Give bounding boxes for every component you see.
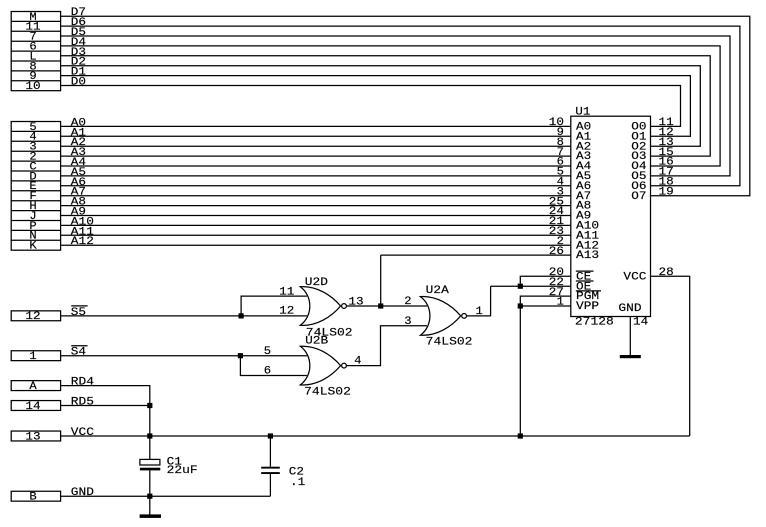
wire A5 (P2 to U1) [61,175,571,177]
wire A10 (P2 to U1) [61,224,571,226]
U1 pin name A0 [576,122,591,134]
U1 pin 14 number [633,317,649,329]
U1 pin name PGM [576,291,601,303]
svg-text:GND: GND [618,303,642,315]
wire C1 to GND rail [149,470,151,496]
wire VCC (U1 pin 28 to VCC rail) [651,276,690,436]
U1 pin 21 number [549,216,565,228]
wire D3 (P1 to U1 O3) [61,56,711,156]
svg-text:.1: .1 [290,477,306,489]
net label A5 [71,167,86,179]
junction S4 branch [238,353,243,358]
net label A3 [71,147,86,159]
svg-text:A13: A13 [576,250,599,262]
wire RD4 [61,386,150,460]
U1 pin 10 number [549,117,564,129]
U2B refdes label [305,335,329,347]
wire U2B pin 6 branch [240,356,307,376]
wire D2 (P1 to U1 O2) [61,66,701,147]
connector P1 pin label 7 [29,32,36,44]
net label D4 [71,37,87,49]
svg-text:O7: O7 [631,191,646,203]
wire U2B output to U2A pin 3 [347,326,427,366]
net label A1 [71,127,87,139]
wire D0 (P1 to U1 O0) [61,86,681,127]
U1 pin name A1 [576,131,592,143]
U2D pin 12 number [279,306,294,318]
connector P1 pin label 9 [29,71,36,83]
U2D pin 11 number [279,286,295,298]
U1 pin name O7 [631,191,646,203]
U2D pin 13 number [348,297,363,309]
wire S4 (P2-1 to U2B pin 5) [61,355,307,357]
svg-text:GND: GND [71,487,95,499]
wire CE (U1 pin 20 to OE node) [520,276,571,286]
net label A8 [71,197,86,209]
U1 pin name CE [576,271,594,283]
wire GND rail [61,495,271,497]
U1 pin 6 number [557,157,564,169]
U1 pin 16 number [659,157,674,169]
connector P2 pin label C [29,161,37,173]
U1 pin 13 number [659,137,674,149]
wire A11 (P2 to U1) [61,234,571,236]
U1 pin name VPP [576,301,600,313]
U1 pin 5 number [557,167,564,179]
svg-text:A: A [29,381,37,393]
wire A13 riser [380,255,382,306]
U1 pin name A12 [576,240,599,252]
wire A8 (P2 to U1) [61,205,571,207]
connector P2 pin label P [29,221,37,233]
U1 pin name O3 [631,151,646,163]
wire A6 (P2 to U1) [61,185,571,187]
junction RD4 riser/VCC rail [147,433,152,438]
wire S5 (P1-12 to U2D pin 12) [61,315,307,317]
svg-text:27128: 27128 [575,317,614,329]
U2B pin 6 number [264,366,271,378]
net label A4 [71,157,87,169]
U1 pin name O4 [631,161,647,173]
wire A3 (P2 to U1) [61,155,571,157]
wire OE (U2A output to U1 pin 22) [491,285,571,287]
junction at VPP/VCC rail [518,433,523,438]
U1 refdes label [575,107,591,119]
NOR gate U2D (74LS02) [300,287,346,326]
U2A pin 1 number [476,306,484,318]
U2A value label 74LS02 [426,337,473,349]
U1 pin name A13 [576,250,599,262]
connector P1 pin label M [29,12,36,24]
connector P1 pin label L [29,51,36,63]
connector P1 (data bus pins) [11,12,60,91]
U2D value label 74LS02 [306,327,353,339]
connector pin 1 box [11,351,60,361]
capacitor C1 bottom plate [140,468,160,471]
wire A1 (P2 to U1) [61,135,571,137]
U1 pin name A4 [576,161,592,173]
svg-text:14: 14 [25,401,41,413]
net label D5 [71,27,86,39]
wire D1 (P1 to U1 O1) [61,76,691,137]
U1 pin 12 number [659,127,674,139]
ground symbol at U1 pin 14 [620,355,641,358]
U1 pin 25 number [549,196,564,208]
connector P2 pin label 2 [29,152,36,164]
svg-text:28: 28 [659,267,674,279]
U1 pin 3 number [557,186,564,198]
svg-text:S5: S5 [71,307,86,319]
U1 pin 26 number [549,246,564,258]
connector P1 pin label 10 [25,81,40,93]
U1 pin 11 number [659,117,675,129]
junction C2/VCC rail [268,433,273,438]
svg-text:D0: D0 [71,77,86,89]
wire A9 (P2 to U1) [61,215,571,217]
svg-text:U2D: U2D [305,277,329,289]
net label D6 [71,17,86,29]
U1 pin 19 number [659,186,674,198]
net label VCC [71,427,95,439]
connector pin 12 label [25,311,40,323]
wire VPP (U1 pin 1 to VCC rail) [520,306,571,436]
capacitor C2 top plate [261,467,280,469]
connector P2 (address bus pins) [11,122,60,251]
wire D7 (P1 to U1 O7) [61,16,750,196]
U2D refdes label [305,277,329,289]
U1 value label 27128 [575,317,614,329]
U1 pin 9 number [557,127,564,139]
connector pin 12 box [11,311,60,321]
connector P2 pin label N [29,231,36,243]
wire A13 (U2D output to U1 pin 26) [381,254,571,256]
wire U2D output node [347,305,381,307]
U2B value label 74LS02 [304,386,351,398]
net label A7 [71,187,86,199]
svg-text:U2A: U2A [426,285,450,297]
svg-text:13: 13 [348,297,363,309]
U1 pin name A6 [576,181,591,193]
connector P2 pin label H [29,201,36,213]
junction at PGM/VPP tie [518,303,523,308]
connector pin A box [11,381,60,391]
U1 pin 18 number [659,177,674,189]
connector P2 pin label 5 [29,122,36,134]
connector P2 pin label E [29,181,37,193]
svg-text:RD5: RD5 [71,397,94,409]
U1 pin name A5 [576,171,591,183]
svg-text:1: 1 [557,297,565,309]
U1 pin name O2 [631,141,646,153]
U1 pin name A7 [576,191,591,203]
connector pin 14 label [25,401,41,413]
net label RD4 [71,377,95,389]
U2A refdes label [426,285,450,297]
U1 pin name O6 [631,181,646,193]
wire D4 (P1 to U1 O4) [61,46,721,166]
wire A4 (P2 to U1) [61,165,571,167]
svg-text:1: 1 [29,351,37,363]
U1 pin 15 number [659,147,674,159]
U1 pin 22 number [549,277,564,289]
svg-text:RD4: RD4 [71,377,95,389]
U1 pin 24 number [549,206,565,218]
svg-text:12: 12 [25,311,40,323]
svg-text:74LS02: 74LS02 [304,386,351,398]
C2 value label .1 [290,477,306,489]
svg-text:K: K [29,241,37,253]
U2B pin 5 number [264,346,271,358]
NOR gate U2A (74LS02) [420,297,466,336]
U1 pin 27 number [549,287,564,299]
wire PGM (U1 pin 27 to VPP node) [520,296,571,306]
net label A10 [71,216,94,228]
capacitor C2 bottom plate [261,472,280,474]
connector P2 pin label 4 [29,132,37,144]
wire GND rail to ground [149,496,151,514]
wire C2 top [269,436,271,467]
U1 pin name O1 [631,131,647,143]
wire A0 (P2 to U1) [61,125,571,127]
U1 pin 23 number [549,226,564,238]
U1 pin name A2 [576,141,591,153]
U1 pin name A8 [576,201,591,213]
U1 pin 20 number [549,267,564,279]
svg-text:S4: S4 [71,347,87,359]
EPROM U1 body [571,116,651,316]
wire GND (U1 pin 14) [629,317,631,356]
wire D5 (P1 to U1 O5) [61,36,730,176]
connector pin B box [11,491,60,501]
junction U2D output / A13 / U2A pin 2 [378,303,383,308]
C2 refdes label [289,466,304,478]
wire C2 bottom to GND rail [269,474,271,496]
U1 pin name O0 [631,122,646,134]
junction S5 branch [239,313,244,318]
wire U2A pin 2 [381,305,427,307]
net label A2 [71,137,86,149]
U1 pin 28 number [659,267,674,279]
net label D3 [71,47,86,59]
svg-text:B: B [29,492,37,504]
NOR gate U2B (74LS02) [300,346,346,385]
connector P2 pin label 3 [29,142,36,154]
wire D6 (P1 to U1 O6) [61,26,740,186]
svg-text:19: 19 [659,186,674,198]
svg-text:VCC: VCC [623,271,647,283]
wire A7 (P2 to U1) [61,195,571,197]
svg-text:13: 13 [25,431,40,443]
net label D2 [71,57,86,69]
U1 pin 17 number [659,167,674,179]
net label D1 [71,67,87,79]
connector P1 pin label 6 [29,42,36,54]
net label A0 [71,117,86,129]
C1 refdes label [167,456,183,468]
U1 pin name OE [576,281,594,293]
svg-text:74LS02: 74LS02 [426,337,473,349]
U2A pin 2 number [404,296,411,308]
ground symbol below C1 [140,514,161,518]
svg-text:14: 14 [633,317,649,329]
U1 pin name A10 [576,221,599,233]
wire A12 (P2 to U1) [61,244,571,246]
net label A9 [71,207,86,219]
U1 pin name A9 [576,211,591,223]
net label S4 [71,346,88,359]
connector P1 pin label 8 [29,61,36,73]
net label D0 [71,77,86,89]
connector P2 pin label F [29,191,36,203]
svg-text:VPP: VPP [576,301,600,313]
svg-text:10: 10 [25,81,40,93]
svg-text:U1: U1 [575,107,591,119]
U1 pin 2 number [557,236,564,248]
U1 pin 8 number [557,137,564,149]
connector pin 14 box [11,401,60,411]
svg-text:U2B: U2B [305,335,329,347]
wire U2D pin 11 branch [241,296,307,316]
connector pin B label [29,492,37,504]
wire VCC rail [61,435,690,437]
wire RD5 [61,405,150,407]
svg-text:VCC: VCC [71,427,95,439]
net label D7 [71,7,86,19]
junction at CE/OE tie [518,284,523,289]
junction C1/GND rail [147,494,152,499]
wire U2A output to OE [467,286,491,316]
U1 pin 1 number [557,297,565,309]
U1 pin name VCC [623,271,647,283]
U2A pin 3 number [404,316,411,328]
C1 value label 22uF [167,465,198,477]
net label GND [71,487,95,499]
connector P1 pin label 11 [25,22,41,34]
U1 pin name GND [618,303,642,315]
U1 pin 4 number [557,177,565,189]
svg-text:26: 26 [549,246,564,258]
net label A12 [71,236,94,248]
junction RD4/RD5 [147,403,152,408]
U2B pin 4 number [354,356,362,368]
connector pin 13 label [25,431,40,443]
U1 pin name O5 [631,171,646,183]
connector pin A label [29,381,37,393]
net label A6 [71,177,86,189]
connector pin 13 box [11,431,60,441]
U1 pin name A11 [576,230,600,242]
connector pin 1 label [29,351,37,363]
wire A2 (P2 to U1) [61,145,571,147]
connector P2 pin label J [29,211,36,223]
U1 pin 7 number [557,147,564,159]
svg-text:3: 3 [404,316,411,328]
svg-text:22uF: 22uF [167,465,198,477]
net label S5 [71,306,88,319]
net label RD5 [71,397,94,409]
capacitor C1 top plate [140,459,160,465]
U1 pin name A3 [576,151,591,163]
svg-text:A12: A12 [71,236,94,248]
connector P2 pin label D [29,171,37,183]
connector P2 pin label K [29,241,37,253]
net label A11 [71,226,95,238]
